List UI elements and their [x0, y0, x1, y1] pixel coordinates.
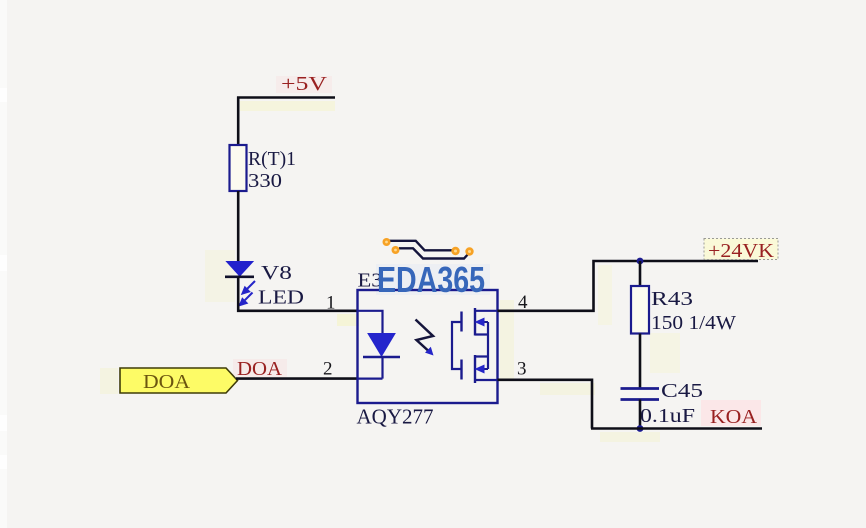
svg-text:+5V: +5V	[281, 73, 328, 95]
wire R43 to C45	[639, 334, 642, 389]
LED V8	[225, 262, 254, 277]
svg-text:330: 330	[248, 170, 282, 192]
pin number 2	[323, 359, 333, 380]
label R(T)1	[248, 148, 296, 170]
faint highlight artifacts	[100, 101, 680, 442]
svg-text:+24VK: +24VK	[708, 240, 775, 262]
svg-text:R43: R43	[651, 288, 693, 310]
label AQY277	[357, 405, 434, 429]
optocoupler E3 box	[358, 290, 498, 403]
pin number 4	[518, 292, 528, 313]
internal photodiode anode wire	[358, 311, 383, 334]
wire LED down and right to pin 1	[238, 277, 357, 311]
resistor R(T)1	[230, 145, 247, 191]
MOSFET Q2 drain lead	[475, 379, 498, 381]
net label +24VK	[704, 239, 778, 263]
svg-text:DOA: DOA	[143, 371, 191, 393]
junction top	[637, 258, 644, 265]
MOSFET Q1 drain lead	[475, 310, 498, 312]
label V8	[261, 262, 292, 284]
MOSFET Q2 channel	[474, 355, 476, 383]
wire +5V down to R(T)1	[237, 97, 240, 147]
net label DOA	[237, 358, 283, 380]
label 150 1/4W	[651, 312, 736, 334]
label LED	[258, 287, 304, 309]
label 330	[248, 170, 282, 192]
net label KOA	[701, 400, 761, 428]
svg-text:DOA: DOA	[237, 358, 283, 380]
svg-text:EDA365: EDA365	[377, 259, 485, 300]
MOSFET gate bracket	[452, 322, 462, 369]
wire R(T)1 to LED	[237, 191, 240, 263]
EDA365 watermark logo	[377, 238, 485, 300]
svg-text:C45: C45	[661, 380, 703, 402]
internal photodiode D1	[363, 334, 400, 358]
resistor R43	[631, 286, 649, 334]
svg-text:0.1uF: 0.1uF	[640, 405, 695, 427]
svg-text:LED: LED	[258, 287, 304, 309]
label 0.1uF	[640, 405, 695, 427]
MOSFET Q2 body arrow	[475, 365, 489, 374]
svg-text:2: 2	[323, 359, 333, 380]
label E3	[358, 270, 383, 292]
internal photodiode cathode wire	[358, 357, 383, 379]
svg-text:V8: V8	[261, 262, 292, 284]
MOSFET source tie	[475, 322, 488, 369]
wire pin 4 to +24VK rail	[498, 261, 759, 311]
svg-text:150 1/4W: 150 1/4W	[651, 312, 736, 334]
pin number 1	[326, 293, 336, 314]
wire junction to R43	[639, 261, 642, 287]
capacitor C45	[621, 389, 660, 400]
port DOA	[120, 368, 238, 393]
pin number 3	[517, 359, 527, 380]
power net +5V label	[281, 73, 328, 95]
wire +5V horizontal	[237, 96, 335, 99]
label C45	[661, 380, 703, 402]
wire pin 3 down to bottom rail	[498, 380, 593, 429]
svg-text:KOA: KOA	[710, 406, 758, 428]
wire DOA to pin 2	[236, 377, 357, 380]
svg-text:R(T)1: R(T)1	[248, 148, 296, 170]
svg-text:3: 3	[517, 359, 527, 380]
wire C45 to bottom rail	[639, 400, 642, 429]
label R43	[651, 288, 693, 310]
junction bottom	[637, 425, 644, 432]
MOSFET Q2 gate bar	[460, 360, 462, 380]
MOSFET Q1 gate bar	[460, 312, 462, 332]
text halos	[233, 76, 490, 377]
LED emission arrows	[240, 281, 255, 305]
MOSFET Q1 body arrow	[475, 318, 489, 327]
svg-text:AQY277: AQY277	[357, 405, 434, 429]
light coupling arrow	[416, 320, 434, 356]
svg-text:1: 1	[326, 293, 336, 314]
MOSFET Q1 channel	[474, 308, 476, 336]
wire bottom rail to KOA	[591, 427, 762, 430]
